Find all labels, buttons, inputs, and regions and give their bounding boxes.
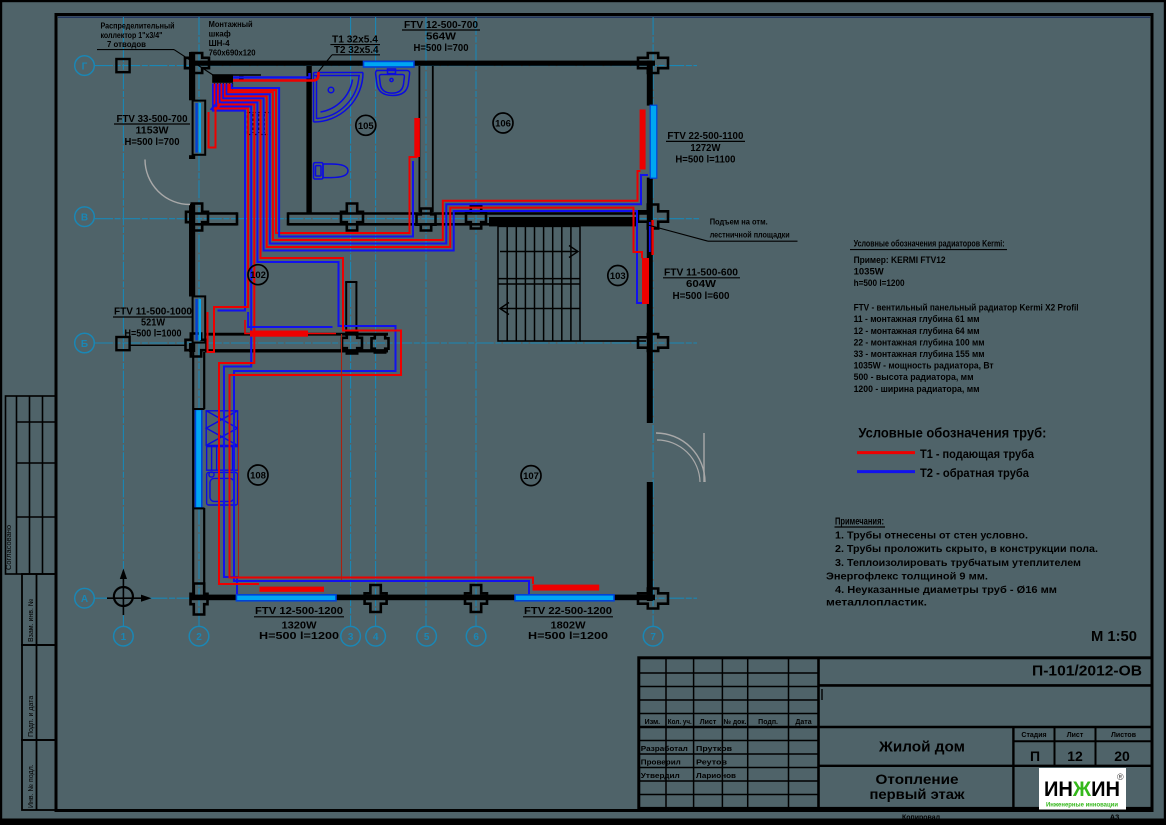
radiator FTV 12-500-1200 in bottom wall [236,595,336,601]
axis bubbles letters [75,56,95,608]
pipe pair 6 red to bottom-left radiator [218,84,259,585]
svg-text:H=500 l=700: H=500 l=700 [125,136,180,148]
axis line A horizontal [95,597,697,599]
stair treads [506,226,508,341]
svg-text:Инженерные инновации: Инженерные инновации [1046,802,1118,809]
interior wall V-axis right piece (double line) [288,212,652,225]
svg-text:Дата: Дата [795,719,811,726]
svg-text:Монтажный: Монтажный [209,20,253,29]
svg-text:107: 107 [523,471,539,482]
label radiator FTV 12-500-1200 [255,605,343,642]
svg-text:2: 2 [196,632,202,643]
stair direction arrow lower flight [500,303,580,315]
svg-text:1. Трубы отнесены от стен усло: 1. Трубы отнесены от стен условно. [835,530,1028,542]
svg-text:Энергофлекс толщиной 9 мм.: Энергофлекс толщиной 9 мм. [826,570,988,582]
axis bubbles numbers [114,626,663,646]
title block small grid verticals [666,658,789,809]
door right wall leaf line [703,433,705,482]
stage sheet headers [1021,732,1136,739]
svg-text:760х690х120: 760х690х120 [209,48,257,57]
svg-text:ШН-4: ШН-4 [209,39,230,48]
svg-text:108: 108 [250,471,266,482]
kitchen hob with X pattern [206,411,237,446]
title block thick verticals [817,658,820,809]
svg-text:500 - высота радиатора, мм: 500 - высота радиатора, мм [854,372,974,383]
TITLE BLOCK [639,658,1152,809]
svg-text:H=500 l=1200: H=500 l=1200 [259,630,339,642]
axis line 1 vertical [122,17,124,626]
title block header row thick line [639,726,1152,729]
svg-text:6: 6 [473,632,479,643]
door right wall upper arc [657,440,700,482]
column cross V x axis3 [341,204,363,231]
column cross B wall end [372,335,389,353]
B-wall radiator blue line [248,312,332,327]
svg-text:Кол. уч.: Кол. уч. [668,719,692,726]
bathroom left wall double line [306,66,311,213]
column cross V x right wall [638,205,668,229]
svg-text:Реутов: Реутов [696,758,727,767]
svg-text:М 1:50: М 1:50 [1091,629,1137,645]
axis line 6 vertical [475,17,477,626]
stair bottom edge to wall [580,340,646,342]
svg-text:П-101/2012-ОВ: П-101/2012-ОВ [1032,664,1142,680]
svg-text:FTV 33-500-700: FTV 33-500-700 [117,113,188,125]
radiator FTV 11-500-1000 in left wall [193,296,206,342]
axis grid lines (cyan) [95,17,699,626]
radiator FTV 22-500-1100 in right wall [650,105,657,178]
pipe pair 4 blue to radiator 600 [223,84,643,304]
column cross V x axis5 [417,209,436,231]
svg-text:12 - монтажная глубина 64 мм: 12 - монтажная глубина 64 мм [854,326,980,337]
pipe pair 3 red to radiator 1100 [228,84,640,241]
legend pipe T1 sample [857,451,915,454]
left stamp strip: soglasovano grid [6,396,57,574]
svg-text:Т2 32х5.4: Т2 32х5.4 [334,45,379,56]
svg-text:Отопление: Отопление [876,771,959,787]
svg-text:H=500 l=600: H=500 l=600 [673,290,730,302]
short black line left of B axis outside [130,344,186,346]
label radiator FTV 12-500-700 [404,19,478,54]
svg-text:7: 7 [650,632,656,643]
svg-text:Пример: KERMI FTV12: Пример: KERMI FTV12 [854,255,946,266]
svg-text:Подп. и дата: Подп. и дата [28,696,35,737]
kitchen sink [207,472,238,505]
svg-text:604W: 604W [686,278,716,290]
window bar in left wall kitchen [193,409,205,508]
valve square on main [239,76,244,81]
svg-text:103: 103 [610,271,626,282]
detached column square axis1 x B [116,337,129,350]
left stamp strip: lower boxes [22,574,56,810]
washbasin [376,69,410,96]
interior wall B-axis double line [205,334,388,351]
svg-text:коллектор 1"х3/4": коллектор 1"х3/4" [101,31,163,40]
svg-text:Прутков: Прутков [696,744,732,753]
stair direction arrow up flight [500,246,578,258]
svg-text:Согласовано: Согласовано [4,525,13,570]
svg-text:Распределительный: Распределительный [101,21,175,30]
riser pipes blue at stair corner [649,222,651,252]
svg-text:№ док.: № док. [724,718,747,726]
header labels [645,718,812,726]
svg-text:521W: 521W [141,316,165,328]
axis line G horizontal [95,65,697,67]
LOGO INJIN [1039,768,1126,810]
left exterior wall upper segment [189,52,195,100]
STAIRS [498,226,646,341]
svg-text:Проверил: Проверил [641,758,681,767]
pipe pair 5 red to left radiator 1000 [208,84,249,353]
svg-text:FTV - вентильный панельный рад: FTV - вентильный панельный радиатор Kerm… [854,303,1079,314]
page outer border [0,0,1166,2]
svg-text:H=500 l=1000: H=500 l=1000 [125,328,182,340]
signature rows [641,744,737,780]
svg-text:FTV 22-500-1200: FTV 22-500-1200 [524,605,612,617]
shower cabin [314,73,364,123]
svg-text:FTV 11-500-600: FTV 11-500-600 [664,266,738,278]
toilet [314,163,349,179]
svg-text:5: 5 [424,632,430,643]
svg-text:1200 - ширина радиатора, мм: 1200 - ширина радиатора, мм [854,384,980,395]
svg-text:Б: Б [81,339,88,350]
svg-text:Листов: Листов [1111,732,1137,739]
NORTH ARROW [107,569,152,616]
pipe pair 7 red to bottom-right radiator [222,84,534,585]
svg-text:Жилой дом: Жилой дом [878,739,965,755]
svg-text:3: 3 [348,632,354,643]
column cross A x left wall [191,584,208,615]
svg-text:564W: 564W [426,31,456,43]
svg-text:11 - монтажная глубина 61 мм: 11 - монтажная глубина 61 мм [854,314,980,325]
pipe pair 7 blue to bottom-right radiator [220,84,529,595]
radiator FTV 33-500-700 in left wall [193,101,206,155]
label rise to stair landing [710,217,790,240]
svg-text:20: 20 [1114,748,1130,764]
red bar radiator bottom-left [260,587,325,592]
svg-text:4. Неуказанные диаметры труб -: 4. Неуказанные диаметры труб - Ø16 мм [835,584,1057,596]
RIGHT SIDE LEGEND [826,238,1137,645]
svg-text:ИНЖИН: ИНЖИН [1044,778,1120,801]
svg-text:П: П [1030,748,1040,764]
thin red stray pipe kitchen [238,420,240,577]
leader collector [174,50,213,75]
svg-text:H=500 l=1100: H=500 l=1100 [675,153,735,165]
svg-text:Т1 - подающая труба: Т1 - подающая труба [920,447,1034,461]
svg-text:3. Теплоизолировать трубчатым: 3. Теплоизолировать трубчатым утеплителе… [835,557,1081,569]
svg-text:33 - монтажная глубина 155 мм: 33 - монтажная глубина 155 мм [854,349,985,360]
svg-text:2. Трубы проложить скрыто, в к: 2. Трубы проложить скрыто, в конструкции… [835,543,1098,555]
legend decode lines [854,303,1079,395]
axis line 7 vertical [652,17,654,626]
B-wall radiator red tail [245,320,336,334]
svg-text:Примечания:: Примечания: [835,515,884,527]
pipe pair 3 blue to radiator 1100 [227,84,648,244]
svg-text:102: 102 [250,270,266,281]
svg-text:Стадия: Стадия [1021,732,1046,739]
stair landing slab band [489,217,637,226]
pipe hook blue diagonal top-left [211,103,218,110]
left exterior wall middle segment [189,204,195,297]
notes lines [826,530,1098,609]
interior wall room 102 closet (double line) [345,282,357,336]
column cross top-left corner [185,53,209,73]
detached column square axis1 x G [116,59,129,72]
svg-text:Копировал: Копировал [902,812,940,821]
svg-text:первый этаж: первый этаж [870,786,966,802]
svg-text:H=500 l=700: H=500 l=700 [414,42,469,54]
kitchen cabinet [207,447,239,471]
svg-text:106: 106 [495,119,511,130]
svg-text:12: 12 [1067,748,1083,764]
axis line B horizontal [95,342,697,344]
column cross A x right wall [638,589,668,609]
label radiator FTV 11-500-1000 [114,306,192,340]
svg-text:металлопластик.: металлопластик. [826,597,927,609]
interior wall V-axis left piece (double line) [195,212,237,225]
pipe pair 6 blue to bottom-left radiator [216,84,251,595]
svg-text:шкаф: шкаф [209,30,231,39]
right exterior wall lower segment [647,482,653,601]
svg-text:Лист: Лист [1067,732,1084,739]
TITLE BLOCK TEXTS [641,664,1142,822]
svg-text:FTV 22-500-1100: FTV 22-500-1100 [667,130,743,142]
column cross A x axis6 [465,585,487,612]
pipe pair 2 red bathroom riser [232,84,413,237]
main inlet pipe T1 red along top wall [233,72,319,81]
svg-text:1153W: 1153W [136,125,169,137]
svg-text:1035W: 1035W [854,266,884,277]
svg-text:1: 1 [121,632,127,643]
svg-text:А3: А3 [1110,812,1120,821]
label mounting cabinet [209,20,257,57]
svg-text:Взам. инв. №: Взам. инв. № [28,599,35,642]
PLAN TEXT LABELS [97,19,798,642]
svg-text:Лист: Лист [700,719,717,726]
cursor artifact [821,689,823,700]
top exterior wall [190,61,655,66]
title block small grid horizontals [639,673,819,795]
leader T1 T2 [319,55,333,72]
svg-text:4: 4 [373,632,379,643]
svg-text:H=500 l=1200: H=500 l=1200 [528,630,608,642]
svg-text:Утвердил: Утвердил [641,771,680,780]
stair outline [498,226,580,341]
svg-text:А: А [81,594,88,605]
stage sheet values [1030,748,1130,764]
leader rise [648,225,708,241]
axis line 5 vertical [425,17,427,626]
svg-text:Изм.: Изм. [645,719,661,726]
label collector [101,21,175,49]
bottom exterior wall [190,595,655,601]
red bar radiator 1100 [640,110,646,170]
axis line 4 vertical [375,17,377,626]
column cross A x axis4 [365,585,387,612]
svg-text:Условные обозначения радиаторо: Условные обозначения радиаторов Kermi: [854,238,1005,249]
pipe pair 4 red to radiator 600 [225,84,642,259]
red bar radiator B-wall 102 [250,331,308,337]
radiator FTV 22-500-1200 in bottom wall [515,595,614,601]
column cross V x left wall [186,204,208,231]
label radiator FTV 33-500-700 [117,113,188,148]
label T1 T2 mains [332,35,379,56]
label radiator FTV 22-500-1100 [667,130,743,165]
COLLECTOR unit [212,74,261,90]
riser pipes red at stair corner [651,220,653,255]
bathroom right wall double line on axis 5 [419,66,432,212]
red bar radiator bottom-right [533,585,600,591]
svg-text:Г: Г [82,62,88,73]
column cross B x right wall [638,334,668,351]
svg-text:FTV 12-500-1200: FTV 12-500-1200 [255,605,343,617]
svg-text:Инв. № подл.: Инв. № подл. [28,764,35,808]
red bar radiator 600 [642,258,649,304]
left wall lower double lines [193,352,204,599]
svg-text:Условные обозначения труб:: Условные обозначения труб: [858,425,1046,440]
axis line V horizontal [95,218,699,220]
svg-text:В: В [81,213,88,224]
title block outer frame [639,658,1152,809]
column cross top-right corner [638,53,668,73]
radiator FTV 12-500-700 in top wall [364,61,414,67]
pipe pair 5 blue to left radiator 1000 [213,84,245,311]
column cross V x axis6 [466,206,486,229]
label radiator FTV 22-500-1200 [524,605,612,642]
label radiator FTV 11-500-600 [664,266,738,301]
pipe hook red to radiator 700 top-left [209,104,222,148]
axis line 2 vertical [198,17,200,626]
svg-text:Подъем на отм.: Подъем на отм. [710,217,768,227]
right exterior wall upper segment [647,61,653,106]
svg-text:Ларионов: Ларионов [696,771,736,780]
legend pipe T2 sample [857,470,915,473]
thin red stray pipe room 107 [341,334,343,580]
svg-text:лестничной площадки: лестничной площадки [710,229,790,239]
ROOM NUMBER CIRCLES [248,113,628,486]
title block right section dividers [819,684,1153,687]
stair middle divider [498,278,580,280]
navy accent line under top frame [58,16,1150,18]
column cross B x axis3 [342,333,362,354]
axis line 3 vertical [350,17,352,626]
WALLS [189,52,655,601]
mounting cabinet dashed box [248,113,271,135]
svg-text:Т2 - обратная труба: Т2 - обратная труба [920,466,1029,480]
svg-text:7 отводов: 7 отводов [107,40,146,49]
svg-text:FTV 12-500-700: FTV 12-500-700 [404,19,478,31]
column cross B x left wall [186,334,207,357]
svg-text:Подп.: Подп. [758,719,778,726]
svg-text:®: ® [1117,772,1124,782]
svg-text:h=500 l=1200: h=500 l=1200 [854,278,905,289]
door arc left wall room entrance [145,160,190,205]
main inlet pipe T2 blue along top wall [233,73,310,77]
door right wall entrance arc [656,433,705,482]
svg-text:Разработал: Разработал [641,744,688,753]
svg-text:1035W - мощность радиатора, Вт: 1035W - мощность радиатора, Вт [854,361,994,372]
svg-text:1272W: 1272W [690,142,720,154]
svg-text:105: 105 [358,121,375,132]
pipe pair 2 blue bathroom riser [230,84,418,234]
red bar bathroom riser [414,118,420,157]
svg-text:22 - монтажная глубина 100 мм: 22 - монтажная глубина 100 мм [854,337,985,348]
